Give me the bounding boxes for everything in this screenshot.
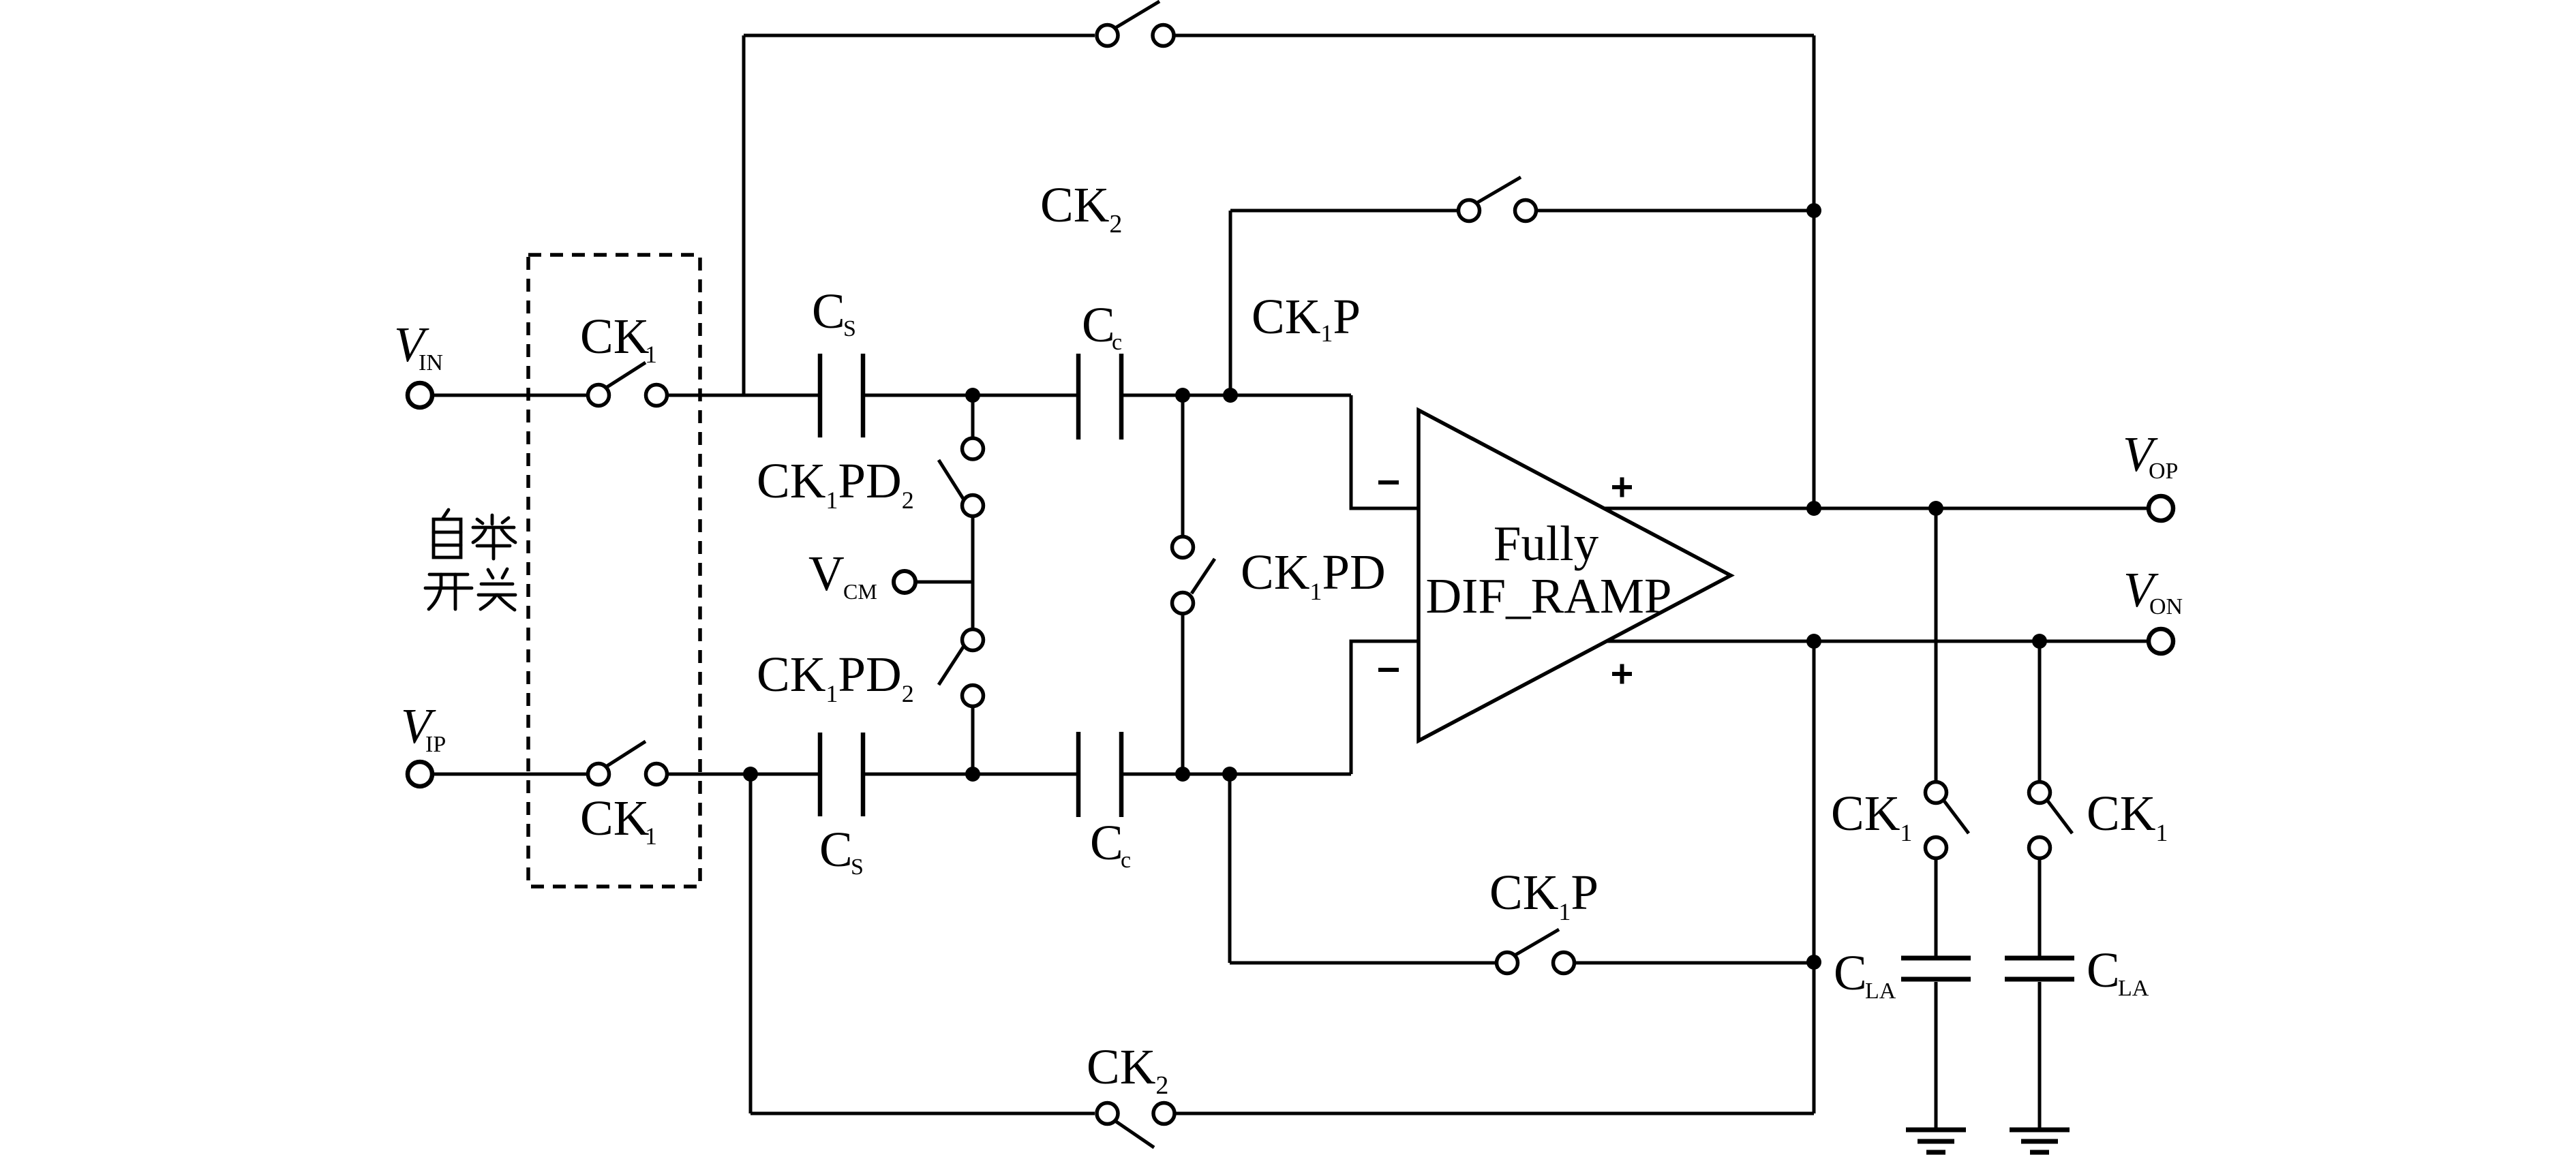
wire CK1P top branch vertical — [1229, 211, 1232, 395]
node E (bottom rail / CK1PD2) — [965, 767, 980, 782]
op-amp input minus (lower) — [1378, 668, 1399, 672]
svg-text:DIF_RAMP: DIF_RAMP — [1425, 568, 1671, 623]
switch CK1P (bottom) — [1497, 953, 1518, 974]
wire Cc to op-amp step (bottom rail) — [1121, 773, 1351, 776]
node A (top rail / CK1PD2) — [965, 388, 980, 403]
wire CLA left branch from upper output — [1935, 508, 1938, 782]
node M (CK1P bottom / right vertical) — [1806, 955, 1821, 970]
wire bottom CK2 feedback left segment — [751, 1112, 1095, 1115]
wire left vertical from top feedback to top rail — [742, 35, 746, 395]
svg-text:CK: CK — [580, 309, 649, 364]
node B (top rail / CK1PD) — [1175, 388, 1190, 403]
wire switch to CS top — [667, 394, 820, 397]
wire CK1P top feedback right segment — [1536, 209, 1814, 213]
wire CLA right branch from lower output — [2038, 641, 2042, 782]
node F (bottom rail / CK1PD) — [1175, 767, 1190, 782]
node K (lower output / right vertical) — [1806, 634, 1821, 649]
op-amp output plus (upper) — [1612, 478, 1632, 497]
wire VIN to switch — [432, 394, 586, 397]
node G (bottom rail / CK1P bottom) — [1222, 767, 1237, 782]
svg-text:S: S — [843, 316, 856, 341]
node J (upper output / CLA left) — [1928, 501, 1943, 516]
wire CK1P top feedback left segment — [1230, 209, 1458, 213]
svg-text:LA: LA — [1865, 979, 1896, 1004]
svg-text:Fully: Fully — [1494, 516, 1599, 571]
svg-text:OP: OP — [2149, 459, 2178, 484]
wire step up to op-amp lower input — [1351, 641, 1419, 774]
wire switch to CLA right — [2038, 859, 2042, 957]
terminal VIN — [408, 383, 432, 407]
wire upper output to VOP — [1603, 507, 2149, 510]
capacitor Cc (bottom) — [1076, 732, 1081, 817]
switch CK1 (right load) — [2029, 782, 2050, 803]
svg-text:1: 1 — [645, 341, 657, 368]
switch CK1PD2 (upper) — [963, 438, 984, 459]
wire right vertical (top feedback to upper output) — [1813, 35, 1816, 508]
svg-text:IP: IP — [425, 732, 446, 757]
node L (lower output / CLA right) — [2032, 634, 2047, 649]
wire right vertical (lower output down to bottom CK2) — [1813, 641, 1816, 1113]
terminal VON — [2149, 629, 2173, 653]
terminal VCM — [894, 571, 915, 593]
node H (CK1P top / right vertical) — [1806, 203, 1821, 218]
svg-text:C: C — [1082, 297, 1115, 352]
svg-text:C: C — [2087, 942, 2120, 998]
switch CK1PD — [1172, 537, 1194, 558]
wire CS to Cc (bottom rail) — [863, 773, 1078, 776]
node C (top rail / CK1P) — [1223, 388, 1238, 403]
wire switch to bottom rail node — [971, 707, 975, 775]
wire switch to bottom rail node — [1181, 614, 1185, 775]
wire Cc to op-amp step (top rail) — [1121, 394, 1351, 397]
svg-text:IN: IN — [419, 350, 443, 375]
wire CK1P bottom feedback left segment — [1230, 961, 1496, 965]
svg-text:CK: CK — [580, 790, 649, 846]
wire CK1P bottom branch vertical from bottom rail — [1228, 774, 1232, 963]
switch CK1 (bottom input, in bootstrap box) — [588, 764, 609, 785]
wire lower output to VON — [1606, 640, 2149, 643]
label 开关 (switch) line 2 — [425, 569, 515, 610]
wire step down to op-amp upper input — [1351, 395, 1419, 508]
node D (bottom rail / bottom CK2) — [743, 767, 758, 782]
capacitor CLA (left) — [1901, 956, 1971, 961]
svg-text:LA: LA — [2118, 976, 2149, 1001]
switch CK2 (top feedback) — [1097, 25, 1118, 46]
wire node to bottom CK2 feedback (left vertical) — [749, 774, 753, 1113]
wire CS to Cc (top rail) — [863, 394, 1078, 397]
svg-text:CK1P: CK1P — [1252, 289, 1361, 347]
svg-text:C: C — [819, 822, 853, 877]
op-amp output plus (lower) — [1612, 664, 1632, 684]
svg-text:C: C — [1090, 815, 1123, 870]
ground (right) — [2010, 1128, 2070, 1133]
svg-text:C: C — [1834, 945, 1867, 1000]
capacitor Cc (top) — [1076, 354, 1081, 440]
ground (left) — [1906, 1128, 1966, 1133]
capacitor CS (bottom) — [818, 733, 823, 816]
op-amp U1 Fully DIF_RAMP triangle — [1419, 410, 1731, 741]
svg-text:c: c — [1112, 330, 1122, 355]
wire switch to CLA left — [1935, 859, 1938, 957]
svg-text:S: S — [851, 854, 864, 880]
switch CK2 (bottom feedback) — [1097, 1103, 1118, 1124]
wire CLA right to ground — [2038, 982, 2042, 1130]
svg-text:CK1P: CK1P — [1489, 865, 1598, 925]
wire CK1P bottom feedback right segment — [1574, 961, 1814, 965]
svg-text:V: V — [808, 546, 845, 601]
terminal VOP — [2149, 496, 2173, 521]
wire top CK2 feedback left segment — [744, 34, 1095, 37]
wire switch to VCM node — [971, 517, 975, 583]
bootstrap switch dashed box — [528, 255, 700, 887]
switch CK1 (top input, in bootstrap box) — [588, 385, 609, 406]
op-amp input minus (upper) — [1378, 480, 1399, 484]
wire VIP to switch — [432, 773, 586, 776]
label 自举 (bootstrap) line 1 — [434, 510, 515, 559]
wire CLA left to ground — [1935, 982, 1938, 1130]
wire top CK2 feedback right segment — [1175, 34, 1814, 37]
svg-text:ON: ON — [2149, 594, 2183, 619]
switch CK1P (top) — [1459, 200, 1480, 221]
wire CK1PD branch from top rail node — [1181, 395, 1185, 537]
svg-text:CM: CM — [843, 579, 877, 604]
switch CK1PD2 (lower) — [971, 582, 975, 630]
svg-text:C: C — [812, 283, 845, 339]
terminal VIP — [408, 762, 432, 786]
capacitor CLA (right) — [2005, 956, 2074, 961]
wire VCM to chain — [915, 581, 973, 584]
switch CK1 (left load) — [1926, 782, 1947, 803]
wire CK1PD2 upper branch from node — [971, 395, 975, 438]
wire switch to CS bottom — [667, 773, 820, 776]
node I (upper output / right vertical) — [1806, 501, 1821, 516]
capacitor CS (top) — [818, 354, 823, 437]
svg-text:1: 1 — [645, 822, 657, 850]
wire bottom CK2 feedback right segment — [1176, 1112, 1814, 1115]
svg-text:c: c — [1121, 848, 1131, 873]
